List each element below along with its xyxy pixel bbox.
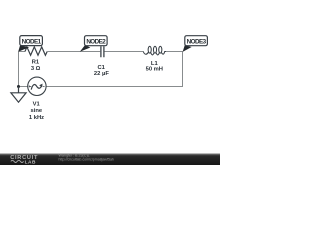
footer text line 1	[59, 153, 90, 157]
footer bar	[0, 153, 220, 165]
svg-text:NODE1: NODE1	[22, 39, 42, 46]
svg-text:sine: sine	[30, 108, 42, 114]
node NODE2 flag	[80, 45, 91, 52]
resistor R1	[25, 47, 47, 55]
wire between R1 and C1	[47, 51, 100, 53]
footer logo wave	[11, 160, 24, 162]
node NODE1 flag	[18, 45, 29, 52]
wire junction to source	[19, 86, 28, 88]
node NODE3 flag	[183, 45, 192, 52]
svg-text:http://circuitlab.com/c/pma8ja: http://circuitlab.com/c/pma8jawf5ah	[59, 157, 114, 161]
svg-text:NODE3: NODE3	[187, 39, 207, 46]
ground	[11, 87, 26, 103]
wire right vertical	[182, 52, 184, 87]
svg-text:LAB: LAB	[25, 159, 36, 165]
svg-text:C1: C1	[97, 65, 105, 71]
capacitor C1	[101, 46, 104, 57]
svg-text:3 Ω: 3 Ω	[31, 66, 41, 72]
node NODE1	[20, 36, 43, 46]
voltage source V1	[28, 77, 46, 95]
wire left vertical	[18, 52, 20, 87]
inductor L1	[143, 46, 166, 55]
wire top-left horizontal segment	[19, 51, 26, 53]
svg-text:1 kHz: 1 kHz	[29, 115, 44, 121]
svg-text:Wangfei : B.23(C)L: Wangfei : B.23(C)L	[59, 153, 90, 157]
svg-text:50 mH: 50 mH	[146, 66, 163, 72]
junction dot	[17, 85, 20, 88]
svg-text:R1: R1	[32, 59, 40, 65]
node NODE3	[185, 36, 208, 46]
svg-text:NODE2: NODE2	[86, 39, 106, 46]
svg-text:V1: V1	[33, 101, 41, 107]
footer text line 2	[59, 157, 114, 161]
node NODE2	[85, 36, 108, 46]
wire between L1 and right corner	[166, 51, 183, 53]
wire bottom horizontal	[46, 86, 183, 88]
wire between C1 and L1	[105, 51, 144, 53]
svg-text:22 µF: 22 µF	[94, 71, 109, 77]
